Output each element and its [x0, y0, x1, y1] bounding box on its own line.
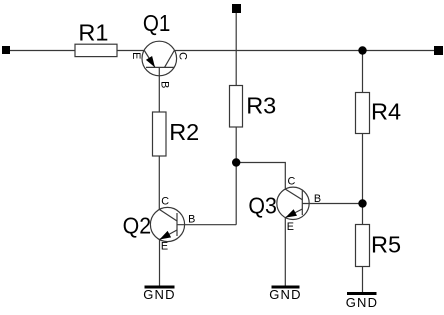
- svg-text:GND: GND: [346, 295, 379, 310]
- svg-text:B: B: [314, 193, 321, 205]
- svg-text:E: E: [130, 52, 142, 59]
- svg-text:C: C: [288, 176, 296, 188]
- svg-text:GND: GND: [269, 287, 302, 302]
- svg-text:Q2: Q2: [123, 213, 152, 239]
- svg-text:E: E: [161, 240, 168, 252]
- svg-text:Q3: Q3: [248, 192, 277, 218]
- svg-text:B: B: [188, 214, 195, 226]
- svg-text:E: E: [287, 221, 294, 233]
- svg-text:R2: R2: [169, 119, 199, 145]
- svg-text:R1: R1: [78, 20, 108, 46]
- svg-text:R5: R5: [371, 231, 401, 257]
- svg-text:R4: R4: [371, 99, 401, 125]
- svg-text:R3: R3: [246, 92, 276, 118]
- svg-text:Q1: Q1: [143, 10, 171, 36]
- svg-text:B: B: [159, 81, 171, 88]
- svg-text:C: C: [177, 52, 189, 60]
- svg-text:GND: GND: [143, 287, 176, 302]
- svg-text:C: C: [161, 195, 169, 207]
